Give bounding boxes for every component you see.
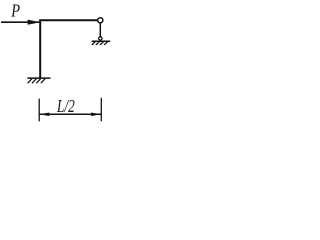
svg-text:L/2: L/2 bbox=[56, 96, 75, 116]
svg-text:P: P bbox=[10, 1, 20, 21]
